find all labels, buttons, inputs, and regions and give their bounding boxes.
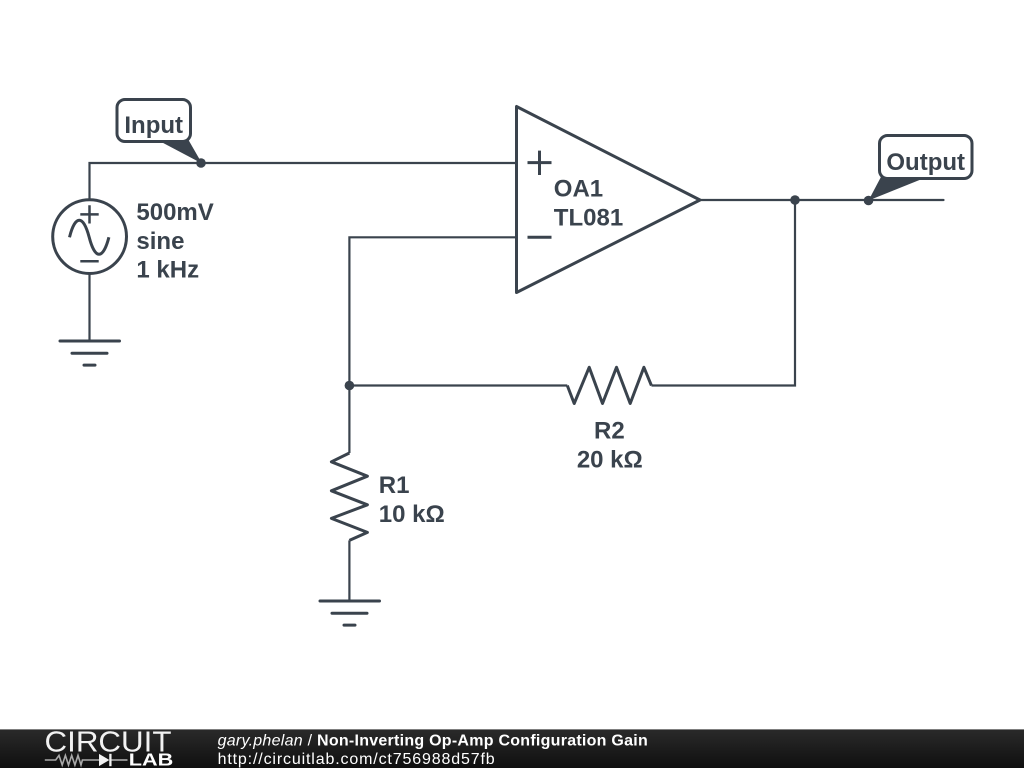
svg-text:10 kΩ: 10 kΩ xyxy=(379,501,445,528)
svg-text:Output: Output xyxy=(886,149,965,176)
node (feedback junction) xyxy=(345,381,355,391)
wire R2 left to junction xyxy=(349,384,567,386)
wire feedback from output junction down and left to R2 right xyxy=(652,200,796,386)
svg-text:TL081: TL081 xyxy=(554,204,623,231)
svg-text:sine: sine xyxy=(136,228,184,255)
svg-text:http://circuitlab.com/ct756988: http://circuitlab.com/ct756988d57fb xyxy=(218,751,496,768)
ground (below V1) xyxy=(60,341,120,365)
svg-text:500mV: 500mV xyxy=(136,199,213,226)
wire op-amp output xyxy=(700,199,944,201)
svg-text:R2: R2 xyxy=(594,417,625,444)
logo diode xyxy=(99,754,109,766)
logo resistor zigzag xyxy=(45,755,100,765)
resistor R2 xyxy=(567,367,651,403)
node (output junction) xyxy=(790,195,800,205)
svg-text:R1: R1 xyxy=(379,472,410,499)
wire op-amp - input to feedback junction xyxy=(349,237,516,385)
wire junction to R1 top xyxy=(348,386,350,454)
flag Output xyxy=(869,136,973,201)
wire source top lead to input node xyxy=(90,163,202,201)
flag Input xyxy=(117,100,202,164)
wire R1 bottom to ground xyxy=(348,540,350,601)
op-amp + input pin mark xyxy=(528,151,552,175)
op-amp - input pin mark xyxy=(528,236,552,239)
wire source bottom lead to ground xyxy=(88,273,90,341)
svg-text:1 kHz: 1 kHz xyxy=(136,256,199,283)
node (output flag) xyxy=(864,196,874,206)
resistor R1 xyxy=(331,453,367,540)
svg-text:Input: Input xyxy=(124,112,183,139)
ground (below R1) xyxy=(320,601,380,625)
svg-text:gary.phelan / Non-Inverting Op: gary.phelan / Non-Inverting Op-Amp Confi… xyxy=(218,733,648,750)
svg-text:LAB: LAB xyxy=(129,750,174,768)
wire input node to op-amp + input xyxy=(201,162,517,164)
svg-text:20 kΩ: 20 kΩ xyxy=(577,447,643,474)
node (input) xyxy=(196,158,206,168)
voltage source V1 xyxy=(53,200,127,274)
op-amp OA1 xyxy=(517,107,701,293)
label V1 value 500mV sine 1 kHz xyxy=(136,199,213,284)
footer bar xyxy=(0,729,1024,768)
svg-text:OA1: OA1 xyxy=(554,175,603,202)
